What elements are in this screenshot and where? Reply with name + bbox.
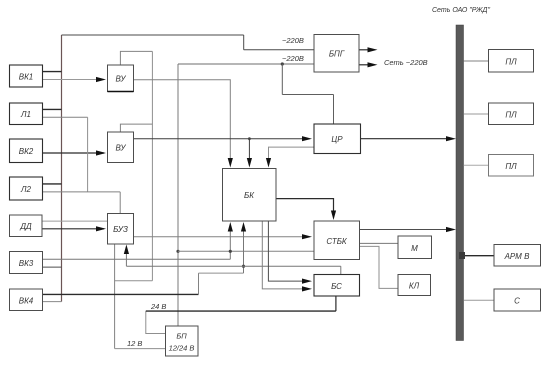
wire: TsR left lower link to BK top 3: [269, 147, 315, 162]
wire: 24V line from BP: [146, 311, 166, 333]
wire: L1 power stub: [43, 108, 62, 110]
box BP 12/24V (power supply): [166, 326, 199, 356]
arrow into BK top 1: [228, 158, 233, 168]
arrow into BS left upper: [302, 279, 312, 284]
wire: VU2 output long line to TsR: [134, 138, 303, 140]
box PL1: [489, 50, 534, 73]
wire: BPG output 1: [359, 49, 368, 51]
svg-text:ВК2: ВК2: [19, 147, 34, 156]
arrow into VU2: [96, 150, 106, 155]
box STBK: [314, 221, 360, 260]
wire: VK4 riser x=198.5: [198, 273, 200, 294]
arrow into STBK top: [331, 211, 336, 221]
bus bar (power distribution): [456, 25, 464, 341]
wire: BUZ output to STBK: [134, 236, 303, 238]
wire: VK3 power stub: [43, 266, 62, 268]
box S (server): [494, 289, 541, 311]
svg-text:БК: БК: [244, 191, 255, 200]
box BS: [314, 275, 360, 297]
svg-text:БС: БС: [331, 282, 342, 291]
wire: VK3 signal y=259.3: [43, 258, 231, 260]
arrow into BUZ left: [96, 226, 106, 231]
wire: riser into BS top x=340.8: [340, 266, 342, 274]
wire: L2 signal horizontal y=192: [43, 191, 121, 193]
box BK (commutation block): [223, 169, 277, 222]
wire: L2 signal riser into BUZ top: [119, 192, 121, 214]
svg-text:Сеть ОАО "РЖД": Сеть ОАО "РЖД": [432, 7, 490, 14]
box PL2: [489, 103, 534, 125]
wire: VU2 top link y=124.1: [120, 124, 152, 132]
box VK4 (camera 4): [10, 289, 43, 311]
box ARM V (workstation): [494, 245, 541, 267]
node: junction 220V-2 to STBK: [176, 250, 179, 253]
wire: branch to TsR horizontal y=94.5: [282, 94, 333, 96]
wire: bus to ARM V: [464, 255, 495, 257]
box BUZ: [108, 214, 134, 245]
svg-text:ВК4: ВК4: [19, 297, 34, 306]
wire: 24V long horizontal y=311.1: [146, 310, 336, 312]
wire: BPG input 2 y=64: [178, 63, 314, 65]
box VK2 (camera 2): [10, 139, 43, 163]
wire: bus to PL2: [464, 113, 489, 115]
wire: TsR output to bus: [361, 138, 447, 140]
wire: BK right output to STBK: [276, 199, 334, 214]
svg-text:ПЛ: ПЛ: [505, 162, 517, 171]
wire: VK4 signal y=294.4: [43, 293, 199, 295]
arrow into BK bottom 1: [228, 222, 233, 232]
wire: DD output 2 to BUZ: [42, 228, 104, 230]
box VK1 (camera 1): [10, 65, 43, 87]
node: dot at crossing x=230.3 y=251.3: [229, 250, 232, 253]
wire: branch to TsR vertical x=282.3: [281, 64, 283, 95]
arrow BPG out 1: [368, 47, 378, 52]
wire: VK4 riser into BK bottom 2: [243, 227, 245, 273]
wire: L1 signal vertical x=87.6: [87, 117, 89, 192]
wire: BPG output 2: [359, 64, 368, 66]
wire: 220V-2 branch to STBK y=251.3: [178, 250, 314, 252]
wire: VK1 signal to VU1: [43, 79, 105, 81]
box L2: [10, 177, 43, 200]
node: junction on 220V-2 at branch to TsR: [281, 62, 284, 65]
wire: STBK to KL: [360, 246, 399, 288]
box KL (keyboard): [398, 275, 431, 296]
wire: 24V riser into BS bottom: [335, 296, 337, 311]
wire: STBK to M: [360, 242, 399, 244]
wire: bus to PL3: [464, 164, 489, 166]
wire: 12V net - VU1 top link: [120, 51, 152, 65]
wire: VK4 horizontal y=273.1: [199, 272, 244, 274]
wire: 12V horizontal into BP left: [115, 348, 166, 350]
svg-text:БПГ: БПГ: [329, 50, 345, 59]
wire: BUZ-BS link y=266.2: [126, 265, 340, 267]
svg-text:24 В: 24 В: [150, 302, 166, 311]
arrow into BK top 3: [266, 158, 271, 168]
wire: branch down into BK top 2: [248, 139, 250, 162]
svg-text:ПЛ: ПЛ: [505, 111, 517, 120]
arrow BPG out 2: [368, 62, 378, 67]
box DD (sensor): [10, 215, 43, 237]
svg-text:ВК3: ВК3: [19, 259, 34, 268]
svg-text:М: М: [411, 244, 418, 253]
wire: DD output 1 to BUZ: [42, 220, 108, 222]
arrow into BS left lower: [302, 286, 312, 291]
box VK3 (camera 3): [10, 252, 43, 274]
svg-text:ДД: ДД: [19, 222, 32, 231]
wire: BPG input 1 y=49.8: [244, 49, 314, 51]
svg-text:12 В: 12 В: [127, 339, 142, 348]
node: junction tick at x=249.4: [248, 137, 251, 140]
arrow into bus from STBK: [446, 227, 456, 232]
svg-text:БП: БП: [176, 332, 187, 341]
svg-text:Л2: Л2: [20, 185, 31, 194]
wire: VU1 output to BK top: [134, 80, 231, 162]
svg-text:Л1: Л1: [20, 110, 31, 119]
box M (monitor): [398, 236, 432, 259]
svg-text:~220В: ~220В: [282, 36, 304, 45]
svg-text:ЦР: ЦР: [331, 135, 343, 144]
arrow into BK top 2: [247, 158, 252, 168]
node: dot at crossing x=243.5 y=266.2: [242, 265, 245, 268]
wire: BK bottom out 2 (x=268.4) to BS: [268, 221, 302, 281]
svg-text:ВУ: ВУ: [116, 75, 127, 84]
wire: VK3 riser into BK bottom: [229, 227, 231, 259]
box VU2 (amplifier 2): [108, 132, 134, 163]
svg-text:12/24 В: 12/24 В: [169, 344, 195, 353]
wire: 220V bus vertical x=61.5: [61, 35, 63, 302]
arrow into TsR left: [302, 136, 312, 141]
arrow into VU1: [96, 77, 106, 82]
wire: STBK output to bus: [360, 229, 447, 231]
arrow into STBK left: [302, 234, 312, 239]
svg-text:СТБК: СТБК: [326, 237, 348, 246]
wire: 220V top horizontal y=35: [62, 34, 244, 36]
wire: bus to PL1: [464, 60, 489, 62]
svg-text:ВУ: ВУ: [116, 144, 127, 153]
box BPG: [314, 35, 359, 73]
wire: L1 signal horizontal: [43, 116, 88, 118]
svg-text:С: С: [514, 297, 520, 306]
box L1: [10, 103, 43, 125]
box PL3: [489, 155, 534, 177]
node: junction on bus at ARM V: [459, 252, 465, 259]
wire: 220V-2 vertical x=178 down to BP: [177, 64, 179, 326]
wire: 220V corner riser x=243.7: [243, 35, 245, 50]
wire: 12V vertical x=152.4: [151, 51, 153, 280]
wire: VK2 signal to VU2: [43, 152, 105, 154]
arrow into BK bottom 2: [241, 222, 246, 232]
svg-text:КЛ: КЛ: [409, 282, 420, 291]
wire: 12V lower horizontal y=280.7: [115, 280, 153, 282]
svg-text:Сеть ~220В: Сеть ~220В: [384, 58, 428, 67]
wire: 12V vertical x=114.6 from BUZ bottom to BP: [114, 244, 116, 349]
wire: VK4 power stub: [43, 301, 62, 303]
wire: bus to S: [464, 299, 495, 301]
wire: L2 power stub: [43, 183, 62, 185]
wire: VK1 power stub: [43, 71, 62, 73]
box TsR (digital recorder): [314, 124, 361, 154]
arrow into BUZ bottom: [124, 245, 129, 255]
wire: riser with arrow into BUZ bottom: [125, 249, 127, 266]
svg-text:БУЗ: БУЗ: [113, 225, 128, 234]
svg-text:ПЛ: ПЛ: [505, 58, 517, 67]
box VU1 (amplifier 1): [108, 65, 134, 92]
wire: branch into TsR top x=333.5: [333, 95, 335, 125]
svg-text:~220В: ~220В: [282, 54, 304, 63]
arrow into bus from TsR: [446, 136, 456, 141]
svg-text:ВК1: ВК1: [19, 73, 34, 82]
wire: BK bottom out 1 (x=262.3) to BS: [262, 221, 302, 289]
svg-text:АРМ В: АРМ В: [504, 252, 530, 261]
